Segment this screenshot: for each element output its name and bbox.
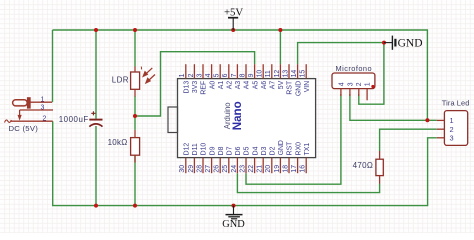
ground symbol top right [384, 36, 395, 50]
svg-text:D8: D8 [218, 146, 225, 155]
LDR top stub [134, 67, 136, 73]
svg-text:4: 4 [338, 82, 345, 86]
svg-text:GND: GND [295, 81, 302, 96]
svg-text:A4: A4 [244, 81, 251, 90]
U1 pin 10 (A6) top stub + number + label [262, 64, 264, 78]
wire Microfono pin2 to top GND junction [359, 43, 384, 105]
svg-text:30: 30 [179, 165, 186, 173]
svg-text:1: 1 [41, 96, 45, 103]
svg-text:D11: D11 [192, 143, 199, 155]
svg-text:A0: A0 [209, 81, 216, 90]
svg-text:A7: A7 [270, 81, 277, 90]
svg-text:D6: D6 [235, 146, 242, 155]
U1 pin 25 (D7) bottom stub + number + label [228, 158, 230, 174]
svg-text:REF: REF [201, 81, 208, 95]
svg-text:RST: RST [287, 80, 294, 95]
svg-text:18: 18 [282, 165, 289, 173]
svg-text:7: 7 [231, 73, 238, 77]
U1 pin 30 (D12) bottom stub + number + label [185, 158, 187, 174]
svg-text:GND: GND [398, 38, 423, 50]
svg-text:A3: A3 [235, 81, 242, 90]
wire +5V top rail from DC jack corner to Tira Led drop [53, 30, 428, 120]
LDR light arrows [141, 67, 155, 83]
U1 pin 22 (D4) bottom stub + number + label [254, 158, 256, 174]
U1 pin 20 (D2) bottom stub + number + label [271, 158, 273, 174]
resistor LDR body [131, 72, 140, 89]
U1 USB connector tab [168, 107, 178, 133]
R1 top stub [134, 130, 136, 138]
U1 pin 12 (5V) top stub + number + label [279, 64, 281, 78]
U1 pin 29 (D11) bottom stub + number + label [193, 158, 195, 174]
svg-text:Tira Led: Tira Led [442, 99, 470, 108]
svg-text:12: 12 [274, 70, 281, 78]
svg-text:4: 4 [205, 73, 212, 77]
R2 bottom stub [379, 176, 381, 184]
wire capacitor C1 bottom to GND rail [95, 126, 97, 206]
svg-text:D5: D5 [244, 146, 251, 155]
svg-text:5: 5 [214, 73, 221, 77]
U1 pin 26 (D8) bottom stub + number + label [219, 158, 221, 174]
wire Arduino pin 24 (D6) to resistor 470 bottom [237, 173, 379, 192]
svg-text:25: 25 [222, 165, 229, 173]
svg-text:3V3: 3V3 [192, 81, 199, 93]
U1 pin 16 (TX1) bottom stub + number + label [305, 158, 307, 174]
U1 pin 11 (A7) top stub + number + label [271, 64, 273, 78]
U2 pin 4 stub + number [340, 89, 342, 96]
node junction LDR top on +5V rail [133, 28, 137, 32]
svg-text:6: 6 [222, 73, 229, 77]
svg-text:5V: 5V [278, 80, 285, 89]
U1 pin 3 (REF) top stub + number + label [202, 64, 204, 78]
wire Microfono pin3 to +5V junction at Tira Led pin 1 [350, 94, 437, 120]
svg-text:3: 3 [41, 104, 45, 111]
U1 pin 15 (VIN) top stub + number + label [305, 64, 307, 78]
resistor R2 470 Ohm body [376, 159, 383, 175]
node junction 10k bottom on GND rail [133, 204, 137, 208]
svg-text:Nano: Nano [231, 101, 244, 130]
J1 pin 3 lead (switch contact) [20, 109, 53, 111]
svg-text:3: 3 [196, 73, 203, 77]
node junction GND symbol on bottom rail [232, 204, 236, 208]
U1 pin 17 (RX0) bottom stub + number + label [297, 158, 299, 174]
node junction +5V supply stub [231, 28, 235, 32]
svg-text:2: 2 [188, 73, 195, 77]
svg-text:15: 15 [300, 70, 307, 78]
node junction C1 top on +5V rail [94, 28, 98, 32]
svg-text:1000uF: 1000uF [59, 115, 89, 124]
svg-text:3: 3 [347, 82, 354, 86]
node junction C1 bottom on GND rail [94, 204, 98, 208]
J2 pin 2 stub + number [437, 128, 445, 130]
wire GND bottom rail from DC jack pin2 to Tira Led pin3 [53, 121, 437, 205]
U1 pin 23 (D5) bottom stub + number + label [245, 158, 247, 174]
svg-text:+5V: +5V [224, 6, 243, 18]
U1 pin 21 (D3) bottom stub + number + label [262, 158, 264, 174]
svg-text:21: 21 [257, 165, 264, 173]
svg-text:TX1: TX1 [304, 143, 311, 156]
svg-text:26: 26 [214, 165, 221, 173]
U1 pin 8 (A4) top stub + number + label [245, 64, 247, 78]
wire +5V drop to capacitor C1 top [95, 30, 97, 119]
svg-text:19: 19 [274, 165, 281, 173]
wire +5V drop to LDR top [134, 30, 136, 67]
node junction Tira Led pin1 +5V [425, 118, 429, 122]
svg-text:A2: A2 [227, 81, 234, 90]
U1 pin 1 (D13) top stub + number + label [185, 64, 187, 78]
op-amp U1 Arduino Nano body [178, 79, 316, 158]
svg-text:2: 2 [43, 115, 47, 122]
svg-text:470Ω: 470Ω [353, 161, 374, 170]
svg-text:VIN: VIN [304, 81, 311, 93]
J1 switch arm with arrow [19, 110, 21, 116]
resistor R1 10kOhm body [131, 138, 140, 156]
svg-text:D4: D4 [252, 146, 259, 155]
svg-text:3: 3 [450, 133, 454, 142]
U1 pin 28 (D10) bottom stub + number + label [202, 158, 204, 174]
U1 pin 18 (RST) bottom stub + number + label [288, 158, 290, 174]
ground symbol bottom [226, 206, 243, 219]
U1 pin 13 (RST) top stub + number + label [288, 64, 290, 78]
wire DC jack pin1 riser to +5V rail [52, 30, 54, 102]
U1 pin 9 (A5) top stub + number + label [254, 64, 256, 78]
svg-text:24: 24 [231, 165, 238, 173]
J1 pin 2 lead with spring squiggle [11, 120, 53, 122]
svg-text:8: 8 [239, 73, 246, 77]
node junction LDR/10k divider [133, 114, 137, 118]
svg-text:10kΩ: 10kΩ [108, 138, 128, 147]
svg-text:2: 2 [356, 82, 363, 86]
U1 pin 6 (A2) top stub + number + label [228, 64, 230, 78]
svg-text:28: 28 [196, 165, 203, 173]
wire +5V drop to Arduino pin 12 (5V) [279, 30, 281, 64]
svg-text:Microfono: Microfono [336, 64, 373, 73]
svg-text:A6: A6 [261, 81, 268, 90]
svg-text:GND: GND [278, 140, 285, 155]
wire Arduino pin 23 (D5) to Microfono pin 4 [246, 94, 341, 184]
U1 pin 2 (3V3) top stub + number + label [193, 64, 195, 78]
wire resistor 470 top to Tira Led pin 2 [380, 129, 437, 151]
node junction top GND symbol [382, 41, 386, 45]
svg-text:D7: D7 [227, 146, 234, 155]
connector J2 Tira Led body [444, 111, 467, 146]
svg-text:A1: A1 [218, 81, 225, 90]
svg-text:10: 10 [257, 70, 264, 78]
J2 pin 1 stub + number [437, 119, 445, 121]
wire GND top run from Arduino pin 14 to GND symbol junction [298, 43, 384, 65]
U1 pin 27 (D9) bottom stub + number + label [211, 158, 213, 174]
svg-text:RST: RST [287, 141, 294, 156]
svg-text:1: 1 [365, 82, 372, 86]
wire node LDR/10k divider to Arduino pin 9 (A5) [134, 96, 136, 130]
svg-text:9: 9 [248, 73, 255, 77]
LDR bottom stub [134, 89, 136, 96]
svg-text:16: 16 [300, 165, 307, 173]
J2 pin 3 stub + number [437, 137, 445, 139]
svg-text:17: 17 [291, 165, 298, 173]
svg-text:A5: A5 [252, 81, 259, 90]
svg-text:D3: D3 [261, 146, 268, 155]
svg-text:29: 29 [188, 165, 195, 173]
svg-text:14: 14 [291, 70, 298, 78]
svg-text:D12: D12 [184, 143, 191, 156]
wire resistor 10k bottom to GND rail [134, 155, 136, 205]
U1 pin 5 (A1) top stub + number + label [219, 64, 221, 78]
U1 pin 7 (A3) top stub + number + label [236, 64, 238, 78]
svg-text:13: 13 [282, 70, 289, 78]
U2 pin 1 stub + number [366, 89, 368, 101]
svg-text:1: 1 [179, 73, 186, 77]
svg-text:LDR: LDR [112, 75, 129, 84]
svg-text:22: 22 [248, 165, 255, 173]
U1 pin 4 (A0) top stub + number + label [211, 64, 213, 78]
op-amp U2 Microfono module body [332, 73, 375, 89]
svg-text:23: 23 [239, 165, 246, 173]
svg-text:11: 11 [265, 70, 272, 77]
U1 pin 24 (D6) bottom stub + number + label [236, 158, 238, 174]
connector J1 DC (5V) barrel jack symbol [13, 98, 31, 109]
svg-text:D13: D13 [184, 81, 191, 94]
U2 pin 2 stub + number [358, 89, 360, 96]
U2 pin 3 stub + number [349, 89, 351, 96]
svg-text:D10: D10 [201, 143, 208, 156]
svg-text:D9: D9 [209, 146, 216, 155]
power +5V supply symbol [228, 18, 238, 30]
svg-text:27: 27 [205, 165, 212, 173]
svg-text:20: 20 [265, 165, 272, 173]
J1 pin 1 lead [30, 101, 52, 103]
U1 pin 19 (GND) bottom stub + number + label [279, 158, 281, 174]
R1 bottom stub [134, 155, 136, 162]
node junction Arduino 5V pin drop [278, 28, 282, 32]
svg-text:D2: D2 [270, 146, 277, 155]
U1 pin 14 (GND) top stub + number + label [297, 64, 299, 78]
svg-text:RX0: RX0 [295, 142, 302, 156]
svg-text:GND: GND [222, 219, 245, 230]
R2 top stub [379, 151, 381, 159]
capacitor C1 1000uF polarized [89, 119, 102, 121]
svg-text:1: 1 [450, 116, 454, 125]
svg-text:DC (5V): DC (5V) [9, 124, 39, 133]
U2 pin 1 marker dot [371, 85, 374, 88]
